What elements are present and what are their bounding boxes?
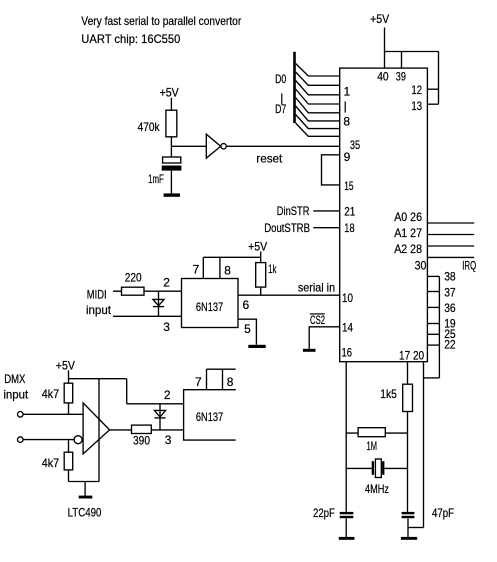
svg-text:14: 14 (342, 320, 353, 334)
svg-text:12: 12 (411, 83, 422, 97)
svg-text:6N137: 6N137 (196, 300, 224, 314)
svg-text:22: 22 (444, 338, 456, 352)
svg-text:serial in: serial in (298, 281, 335, 295)
svg-text:A0 26: A0 26 (394, 210, 422, 224)
svg-text:390: 390 (133, 434, 150, 448)
svg-text:18: 18 (344, 221, 355, 235)
svg-text:A2 28: A2 28 (394, 242, 422, 256)
svg-text:DMX: DMX (4, 372, 25, 386)
svg-text:3: 3 (163, 320, 170, 334)
svg-text:1k5: 1k5 (380, 387, 397, 401)
svg-text:8: 8 (343, 115, 350, 129)
svg-text:6: 6 (243, 298, 250, 312)
svg-text:30: 30 (415, 259, 427, 273)
svg-text:2: 2 (164, 388, 171, 402)
svg-text:D0: D0 (275, 72, 286, 86)
svg-text:2: 2 (163, 275, 170, 289)
svg-text:3: 3 (165, 433, 172, 447)
svg-text:8: 8 (227, 375, 234, 389)
svg-text:17 20: 17 20 (399, 348, 424, 362)
svg-text:7: 7 (195, 375, 202, 389)
svg-text:37: 37 (444, 285, 456, 299)
svg-text:+5V: +5V (160, 86, 179, 100)
svg-text:35: 35 (350, 138, 360, 152)
svg-text:reset: reset (256, 151, 283, 165)
svg-text:LTC490: LTC490 (68, 506, 102, 520)
svg-text:13: 13 (411, 99, 422, 113)
svg-text:+5V: +5V (248, 240, 267, 254)
svg-text:IRQ: IRQ (462, 259, 476, 273)
svg-text:DinSTR: DinSTR (277, 204, 310, 218)
svg-text:5: 5 (244, 322, 251, 336)
svg-text:input: input (86, 303, 112, 317)
svg-text:1k: 1k (268, 262, 277, 276)
svg-text:40: 40 (377, 69, 389, 83)
svg-text:+5V: +5V (370, 12, 389, 26)
svg-text:D7: D7 (275, 102, 286, 116)
svg-text:1M: 1M (367, 439, 378, 453)
svg-text:DoutSTRB: DoutSTRB (264, 221, 310, 235)
svg-text:6N137: 6N137 (196, 410, 224, 424)
svg-text:220: 220 (125, 271, 142, 285)
svg-text:UART chip: 16C550: UART chip: 16C550 (81, 32, 180, 46)
svg-text:+5V: +5V (56, 359, 75, 373)
svg-text:38: 38 (444, 269, 456, 283)
svg-text:4MHz: 4MHz (365, 482, 389, 496)
svg-text:1mF: 1mF (148, 172, 164, 186)
svg-text:A1 27: A1 27 (394, 226, 422, 240)
svg-text:4k7: 4k7 (42, 456, 60, 470)
svg-text:470k: 470k (138, 120, 161, 134)
svg-text:MIDI: MIDI (87, 288, 107, 302)
svg-text:15: 15 (344, 179, 354, 193)
svg-text:39: 39 (396, 69, 406, 83)
svg-text:22pF: 22pF (313, 506, 335, 520)
svg-text:36: 36 (444, 301, 456, 315)
svg-text:4k7: 4k7 (42, 387, 60, 401)
svg-text:21: 21 (344, 204, 355, 218)
svg-text:7: 7 (193, 262, 200, 276)
svg-text:47pF: 47pF (432, 506, 454, 520)
svg-text:|: | (344, 99, 347, 113)
svg-text:Very fast serial to parallel c: Very fast serial to parallel convertor (81, 14, 241, 28)
svg-text:8: 8 (224, 264, 231, 278)
svg-text:16: 16 (342, 345, 353, 359)
svg-text:10: 10 (342, 291, 353, 305)
svg-text:CS2: CS2 (310, 313, 325, 327)
svg-text:9: 9 (344, 150, 351, 164)
svg-text:input: input (3, 388, 28, 402)
svg-text:1: 1 (344, 85, 351, 99)
